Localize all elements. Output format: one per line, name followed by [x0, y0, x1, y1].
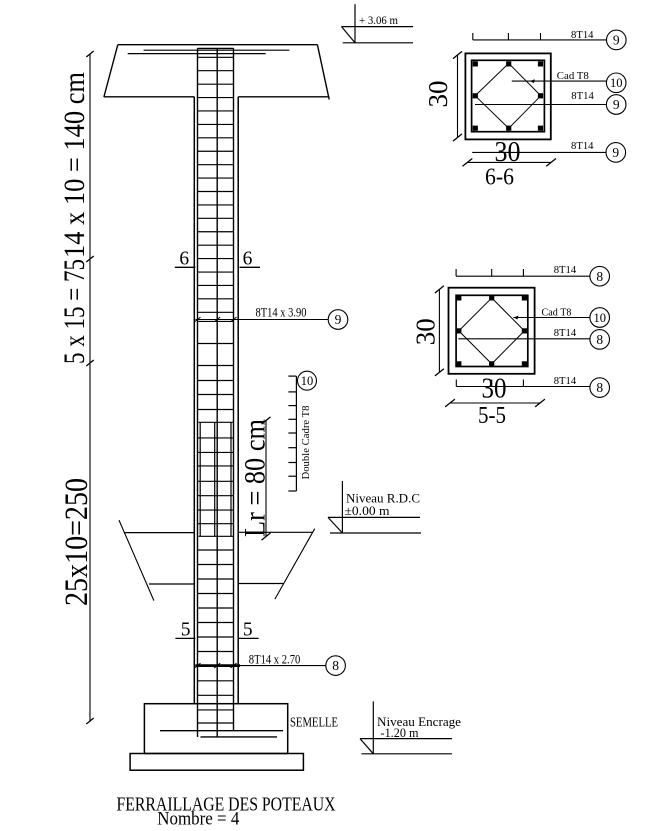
lower dim ticks — [445, 399, 455, 407]
svg-text:Cad T8: Cad T8 — [542, 307, 572, 319]
Lr dimension line — [265, 420, 267, 537]
svg-text:14 x 10 = 140 cm: 14 x 10 = 140 cm — [58, 72, 91, 258]
section 6-6 outer square — [465, 53, 550, 139]
bubble 10 — [606, 73, 626, 93]
bubble 9 bottom — [606, 143, 626, 163]
cage bottom bend bar 1 — [160, 730, 283, 732]
svg-text:6: 6 — [243, 249, 253, 270]
bubble 8 — [326, 656, 346, 676]
Lr tick bottom — [262, 533, 271, 540]
6-6 left dim line — [457, 55, 459, 138]
stirrups upper zone — [198, 56, 234, 58]
svg-text:8: 8 — [596, 380, 603, 395]
level marker RDC vertical — [341, 481, 343, 533]
svg-text:8T14: 8T14 — [571, 140, 594, 152]
6-6 top bar ticks — [472, 33, 474, 40]
floor top line right — [238, 531, 312, 533]
bubble 9 mid — [606, 95, 626, 115]
5-5 cad leader — [513, 317, 590, 319]
double cadre rungs — [288, 375, 296, 377]
floor top line left — [125, 532, 195, 534]
5-5 left dim line — [438, 289, 440, 372]
left dim ticks — [453, 51, 462, 58]
cad arrowhead — [530, 79, 535, 83]
lap splice bottom closure — [199, 535, 235, 537]
beam bottom edge left — [104, 96, 194, 98]
top anchorage bar 1 — [144, 49, 290, 51]
cage longitudinal bar middle — [216, 48, 218, 737]
level RDC lower line — [330, 532, 421, 534]
svg-text:8T14: 8T14 — [571, 29, 594, 41]
6-6 cad leader — [512, 80, 607, 82]
leader line 8T14 x 2.70 — [195, 665, 325, 667]
svg-text:Cad T8: Cad T8 — [557, 70, 589, 82]
svg-text:10: 10 — [610, 76, 623, 90]
svg-text:Double Cadre T8: Double Cadre T8 — [300, 405, 312, 479]
svg-text:SEMELLE: SEMELLE — [290, 715, 338, 730]
svg-text:8T14 x 3.90: 8T14 x 3.90 — [256, 305, 307, 320]
section 5-5 outer square — [449, 288, 535, 374]
svg-text:5: 5 — [181, 619, 191, 640]
bubble 10 — [590, 308, 610, 328]
section 6-6 rebar dots — [473, 61, 478, 66]
5-5 bottom bar ticks — [455, 380, 457, 387]
5-5 bottom leader line — [456, 386, 590, 388]
section 5-5 rebar dots — [456, 295, 461, 300]
bubble 9 — [328, 310, 348, 330]
level RDC upper line — [328, 516, 420, 518]
beam right slant edge — [317, 45, 329, 100]
svg-text:9: 9 — [613, 32, 620, 47]
dimension tick y363 — [86, 360, 94, 366]
svg-text:30: 30 — [411, 318, 441, 345]
svg-text:30: 30 — [482, 373, 507, 405]
level marker +3.06 vertical — [354, 4, 356, 43]
cage longitudinal bar right — [233, 48, 235, 730]
svg-text:8T14: 8T14 — [554, 264, 577, 276]
cage top closure — [198, 47, 234, 49]
level +3.06 upper line — [342, 26, 414, 28]
svg-text:8T14: 8T14 — [554, 327, 577, 339]
lower dim ticks — [463, 159, 473, 167]
floor bottom line left — [149, 583, 194, 585]
lap splice top closure — [199, 421, 235, 423]
svg-text:5-5: 5-5 — [478, 403, 506, 429]
cage bottom bend bar 2 — [201, 736, 278, 738]
bubble 10 double cadre — [298, 371, 317, 390]
dimension tick top — [86, 51, 94, 57]
svg-text:5 x 15 = 75: 5 x 15 = 75 — [58, 259, 91, 364]
footing body — [144, 704, 287, 754]
svg-text:5: 5 — [243, 619, 253, 640]
section 5-5 diamond cadre — [459, 298, 525, 364]
level +3.06 lower line — [343, 42, 413, 44]
double cadre vertical line — [295, 376, 297, 491]
svg-text:10: 10 — [301, 374, 314, 388]
5-5 mid leader 8T14 — [458, 338, 590, 340]
svg-text:8T14: 8T14 — [571, 90, 594, 102]
svg-text:Nombre = 4: Nombre = 4 — [157, 808, 239, 829]
section 6-6 diamond cadre — [475, 63, 541, 128]
leader line 8T14 x 3.90 — [195, 319, 328, 321]
stirrups lap zone — [198, 437, 234, 439]
6-6 top leader 8T14 — [473, 39, 607, 41]
cad arrowhead — [513, 316, 518, 320]
crossing ticks — [195, 317, 201, 322]
5-5 lower dim line — [450, 402, 540, 404]
floor break diagonal left — [119, 520, 154, 601]
bubble 8 top — [590, 266, 610, 286]
top anchorage bar 2 — [128, 53, 266, 55]
svg-text:-1.20 m: -1.20 m — [381, 726, 419, 740]
6-6 lower dim line — [467, 161, 551, 163]
stirrups lower zone — [198, 549, 234, 551]
level +3.06 flag diagonal — [342, 27, 356, 43]
bubble 8 mid — [590, 330, 610, 350]
svg-text:30: 30 — [423, 81, 453, 108]
level encrage lower line — [361, 753, 452, 755]
lap splice bar left — [199, 422, 201, 536]
svg-text:±0.00 m: ±0.00 m — [345, 504, 390, 518]
svg-text:+ 3.06 m: + 3.06 m — [359, 13, 399, 27]
level encrage upper line — [360, 738, 452, 740]
level RDC flag diagonal — [328, 517, 342, 533]
svg-text:9: 9 — [612, 145, 619, 160]
svg-text:25x10=250: 25x10=250 — [59, 478, 95, 606]
floor break diagonal right — [275, 529, 315, 599]
bold stirrup at leader — [195, 664, 240, 667]
column concrete outline right — [237, 97, 239, 704]
stirrups middle zone — [198, 320, 234, 322]
svg-text:8: 8 — [596, 332, 603, 347]
6-6 mid leader 8T14 — [475, 104, 606, 106]
column concrete outline left — [193, 97, 195, 704]
svg-text:6: 6 — [179, 249, 189, 270]
section 6-6 stirrup square — [472, 60, 545, 131]
svg-text:8: 8 — [332, 658, 339, 673]
svg-text:Lr = 80 cm: Lr = 80 cm — [239, 419, 272, 537]
left vertical dimension line — [89, 54, 91, 721]
svg-text:10: 10 — [593, 311, 606, 325]
beam bottom edge right — [238, 96, 329, 98]
5-5 top leader 8T14 — [456, 275, 590, 277]
bubble 8 bottom — [590, 378, 610, 398]
dimension tick bottom — [86, 718, 94, 724]
bubble 9 top — [607, 30, 627, 50]
beam left slant edge — [104, 45, 118, 97]
left dim ticks — [435, 286, 444, 293]
svg-text:30: 30 — [495, 136, 521, 168]
5-5 top bar ticks — [455, 269, 457, 276]
level encrage flag diagonal — [360, 739, 373, 754]
Lr tick top — [262, 417, 271, 424]
svg-text:8: 8 — [596, 269, 603, 284]
beam top edge — [118, 44, 318, 46]
6-6 bottom leader line — [472, 151, 606, 153]
lap splice bar right — [230, 422, 232, 536]
svg-text:8T14 x 2.70: 8T14 x 2.70 — [249, 651, 300, 666]
lap splice bar middle — [214, 422, 216, 536]
level marker encrage vertical — [372, 701, 374, 753]
cage longitudinal bar left — [197, 48, 199, 737]
svg-text:6-6: 6-6 — [485, 164, 514, 190]
crossing ticks — [195, 663, 201, 668]
floor bottom line right — [238, 583, 283, 585]
footing base slab — [130, 754, 303, 771]
svg-text:9: 9 — [335, 312, 342, 327]
section 5-5 stirrup square — [456, 295, 528, 366]
dimension tick y259 — [86, 256, 94, 262]
svg-text:8T14: 8T14 — [554, 375, 577, 387]
svg-text:9: 9 — [613, 97, 620, 112]
